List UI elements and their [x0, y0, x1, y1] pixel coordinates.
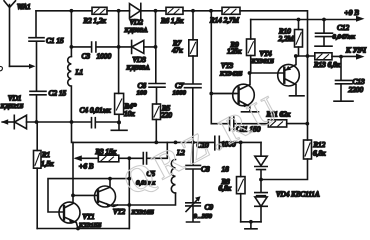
capacitor C1	[29, 11, 64, 91]
wire top rail left	[36, 10, 92, 12]
svg-text:VT1: VT1	[83, 212, 95, 221]
svg-text:1,5к: 1,5к	[41, 159, 54, 168]
svg-text:10к: 10к	[124, 109, 135, 118]
node bottom-C1C2	[35, 120, 39, 124]
svg-text:100: 100	[137, 90, 148, 97]
capacitor C11	[230, 117, 269, 134]
svg-text:R3 15к: R3 15к	[95, 147, 117, 156]
svg-text:47к: 47к	[172, 46, 183, 55]
capacitor C9 variable	[186, 196, 214, 222]
svg-text:9...350: 9...350	[194, 213, 213, 220]
transistor VT3 КТ342Б	[211, 61, 254, 111]
wire R14 to right corner	[240, 11, 308, 56]
svg-text:220: 220	[161, 111, 172, 120]
node C5col-178	[127, 177, 131, 181]
node R10 bottom	[294, 54, 298, 58]
node x307-56	[306, 54, 310, 58]
wire VT3 base	[211, 93, 236, 95]
resistor R11	[266, 110, 308, 128]
resistor R2	[83, 7, 108, 25]
transistor VT4 КТ361Б	[251, 49, 300, 95]
ground VT4 collector	[290, 95, 305, 97]
resistor R12	[261, 140, 326, 180]
wire VT4 base	[250, 72, 285, 74]
resistor R5	[153, 104, 173, 143]
wire emitter node	[296, 55, 315, 57]
resistor R1	[34, 122, 55, 229]
wire VT3 base column	[211, 11, 229, 124]
svg-text:18: 18	[222, 165, 230, 174]
svg-text:С12: С12	[337, 23, 350, 32]
svg-text:КТ361Б: КТ361Б	[251, 58, 274, 65]
node top-VD2k	[154, 9, 158, 13]
resistor R13	[313, 53, 341, 69]
node top-L1	[70, 9, 74, 13]
svg-text:R1: R1	[41, 150, 50, 159]
wire R13 to output	[332, 55, 357, 57]
svg-text:R6 1,5к: R6 1,5к	[160, 16, 184, 25]
node R11 right	[305, 122, 309, 126]
svg-text:6,8к: 6,8к	[219, 184, 232, 193]
svg-text:+6 В: +6 В	[79, 162, 94, 171]
diode VD1 КД521Б	[0, 94, 27, 129]
wire +9V rail	[251, 19, 358, 21]
wire VT1 base loop	[48, 158, 129, 228]
svg-text:КД521Б: КД521Б	[0, 103, 23, 110]
left edge artifact	[0, 67, 2, 71]
svg-text:VD4 КВС111А: VD4 КВС111А	[276, 190, 320, 199]
resistor R7	[172, 39, 197, 57]
node VT3 base tee	[209, 92, 213, 96]
svg-text:0,047мк: 0,047мк	[333, 34, 356, 41]
ground main rail	[111, 120, 127, 130]
capacitor C6	[137, 81, 166, 104]
resistor R8	[219, 142, 246, 221]
svg-text:2200: 2200	[349, 85, 364, 94]
transistor VT1 КТ315Б	[59, 202, 101, 229]
svg-text:+9 В: +9 В	[344, 8, 359, 17]
node rail-C12	[322, 18, 326, 22]
svg-text:VD3: VD3	[133, 55, 147, 64]
svg-text:VT2: VT2	[113, 207, 126, 216]
node VT3c-VT4b	[248, 71, 252, 75]
svg-text:R13 6,8к: R13 6,8к	[313, 60, 341, 69]
svg-text:КД503А: КД503А	[126, 65, 151, 72]
svg-text:6,8к: 6,8к	[313, 149, 326, 158]
svg-text:С3: С3	[82, 52, 91, 61]
svg-text:КД503А: КД503А	[124, 27, 149, 34]
inductor L2	[171, 148, 185, 193]
svg-text:1000: 1000	[173, 90, 187, 97]
node VD3-C6	[154, 45, 158, 49]
transistor VT2 КТ316Б	[95, 179, 154, 216]
wire R4 column	[118, 11, 120, 94]
svg-text:С9: С9	[205, 203, 214, 212]
wire C3 row	[71, 46, 91, 48]
svg-text:К УЗЧ: К УЗЧ	[345, 46, 367, 55]
diode VD2 КД503А	[124, 3, 149, 34]
wire emitter line to L2	[114, 193, 176, 205]
svg-text:1000: 1000	[97, 52, 112, 61]
node rail-R10	[297, 18, 301, 22]
capacitor C4	[80, 106, 120, 128]
diode VD3 КД503А	[119, 40, 156, 71]
resistor R6	[160, 7, 184, 25]
svg-text:С2 15: С2 15	[49, 89, 67, 98]
capacitor C13	[334, 57, 365, 102]
wire VT1 collector column	[72, 142, 74, 203]
node top-VT3base	[209, 9, 213, 13]
capacitor C5	[129, 142, 167, 186]
wire R2 to VD2	[107, 10, 130, 12]
wire antenna feed	[10, 64, 36, 69]
svg-text:R14 2,7М: R14 2,7М	[209, 16, 240, 25]
node VT1 emitter bottom	[76, 227, 80, 231]
varicap VD4 КВС111А	[255, 142, 320, 221]
wire C6 column	[155, 47, 157, 83]
capacitor C7	[173, 81, 202, 142]
svg-text:125к: 125к	[227, 47, 242, 56]
node bottom-L1	[70, 120, 74, 124]
label +6V arrow	[74, 155, 99, 170]
resistor R3	[95, 147, 130, 162]
svg-text:L1: L1	[75, 68, 84, 77]
svg-text:2,2М: 2,2М	[279, 34, 295, 43]
label +9V arrow	[344, 8, 365, 22]
ground VT3 emitter	[242, 111, 259, 113]
svg-text:QRZ.RU: QRZ.RU	[117, 87, 289, 204]
label К УЗЧ arrow	[345, 46, 367, 60]
capacitor C2	[30, 89, 66, 122]
inductor L1	[68, 57, 84, 123]
svg-text:КТ316Б: КТ316Б	[131, 209, 154, 216]
resistor R14	[209, 7, 240, 24]
node R3-C5	[127, 156, 131, 160]
node top-R7	[191, 9, 195, 13]
wire bottom rail	[27, 121, 92, 123]
node tank-R5	[154, 141, 158, 145]
wire VD2-VD3 link column	[155, 11, 157, 47]
svg-text:С4 0,01мк: С4 0,01мк	[80, 106, 112, 115]
node tank-L2	[174, 141, 178, 145]
resistor R10	[278, 20, 303, 57]
node C3-VD3	[117, 45, 121, 49]
node R13-C13	[339, 55, 343, 59]
svg-text:WA1: WA1	[17, 2, 31, 11]
node tank-C7	[191, 141, 195, 145]
wire x307 column	[307, 56, 309, 140]
antenna WA1	[4, 1, 31, 67]
wire oscillator frame left	[72, 122, 215, 142]
ground varicap	[245, 220, 257, 229]
node VT1 collector	[71, 194, 75, 198]
wire varicap bottom	[241, 221, 261, 223]
node top-VD2a	[117, 9, 121, 13]
node emitter-col	[127, 203, 131, 207]
wire VT1c to VT2b	[73, 194, 98, 196]
resistor R9 125к	[227, 20, 255, 74]
capacitor C8	[186, 142, 229, 202]
svg-text:КТ342Б: КТ342Б	[219, 71, 242, 78]
node R8 top	[239, 141, 243, 145]
capacitor C12	[315, 20, 356, 47]
wire L1 column	[70, 11, 72, 57]
wire R7 column	[192, 11, 194, 40]
wire left edge with arrow	[1, 119, 13, 125]
svg-text:VD1: VD1	[8, 94, 21, 103]
wire R7 to C7	[192, 56, 194, 84]
resistor R4	[115, 93, 137, 122]
wire R6 to R14	[183, 10, 222, 12]
svg-text:VT3: VT3	[221, 61, 234, 70]
wire oscillator bottom	[37, 205, 129, 229]
wire C10 to varicap corner	[241, 141, 261, 143]
capacitor C3	[82, 42, 119, 61]
svg-text:VT4: VT4	[260, 49, 273, 58]
node L1-C3	[70, 45, 74, 49]
svg-text:С1 15: С1 15	[46, 36, 64, 45]
svg-text:R2 1,2к: R2 1,2к	[83, 16, 107, 25]
wire VD2 to R6	[141, 10, 166, 12]
capacitor C10	[197, 136, 241, 150]
svg-text:VD2: VD2	[130, 18, 144, 27]
node VT2 collector top	[108, 177, 112, 181]
